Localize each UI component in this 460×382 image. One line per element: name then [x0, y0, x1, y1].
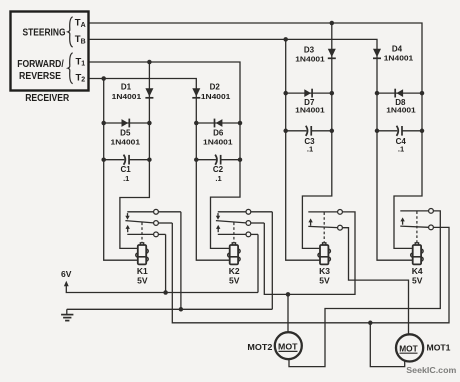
svg-text:REVERSE: REVERSE [19, 71, 61, 82]
svg-text:1N4001: 1N4001 [203, 138, 233, 147]
svg-text:1N4001: 1N4001 [201, 92, 231, 101]
svg-text:1N4001: 1N4001 [295, 105, 325, 114]
svg-text:5V: 5V [137, 276, 148, 286]
svg-text:MOT: MOT [399, 343, 418, 353]
svg-text:2: 2 [81, 77, 85, 84]
svg-text:1N4001: 1N4001 [295, 55, 325, 64]
svg-text:1N4001: 1N4001 [111, 138, 141, 147]
svg-text:.1: .1 [307, 145, 313, 154]
svg-text:MOT2: MOT2 [247, 342, 272, 352]
svg-text:.1: .1 [215, 174, 221, 183]
svg-text:1N4001: 1N4001 [386, 105, 416, 114]
svg-text:STEERING: STEERING [23, 28, 66, 39]
svg-text:D3: D3 [304, 46, 315, 55]
svg-text:.1: .1 [398, 145, 404, 154]
svg-text:RECEIVER: RECEIVER [25, 93, 70, 104]
svg-text:D1: D1 [121, 83, 132, 92]
svg-text:5V: 5V [412, 276, 423, 286]
svg-text:A: A [81, 22, 86, 29]
svg-text:5V: 5V [229, 276, 240, 286]
svg-text:1N4001: 1N4001 [112, 92, 142, 101]
svg-text:MOT1: MOT1 [427, 343, 451, 353]
svg-text:K2: K2 [229, 266, 240, 276]
svg-text:D6: D6 [213, 128, 224, 137]
svg-text:FORWARD/: FORWARD/ [17, 59, 64, 70]
svg-text:1N4001: 1N4001 [384, 54, 414, 63]
svg-text:K4: K4 [412, 266, 423, 276]
svg-text:MOT: MOT [278, 342, 298, 352]
svg-text:SeekIC.com: SeekIC.com [406, 366, 456, 375]
svg-text:1: 1 [81, 61, 85, 68]
svg-text:B: B [81, 38, 86, 45]
svg-text:.1: .1 [123, 174, 129, 183]
svg-text:D4: D4 [392, 45, 403, 54]
svg-text:K3: K3 [319, 266, 330, 276]
svg-text:D2: D2 [210, 83, 221, 92]
svg-text:6V: 6V [61, 269, 72, 279]
svg-text:K1: K1 [137, 266, 148, 276]
svg-text:D5: D5 [120, 128, 131, 137]
svg-text:5V: 5V [319, 276, 330, 286]
